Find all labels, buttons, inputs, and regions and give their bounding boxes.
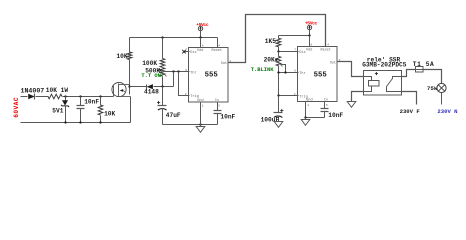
wire thr line <box>164 70 190 72</box>
capacitor C2 47uF <box>157 87 181 125</box>
diode D1 1N4007 <box>21 88 45 100</box>
svg-text:6: 6 <box>185 69 187 72</box>
svg-text:10nF: 10nF <box>84 98 99 105</box>
svg-text:555: 555 <box>205 71 218 79</box>
svg-text:Reset: Reset <box>212 49 223 53</box>
lamp LP1 75W <box>427 83 446 92</box>
wire SSR out to fuse <box>402 70 416 77</box>
svg-text:Thr: Thr <box>190 71 196 76</box>
svg-text:60VAC: 60VAC <box>13 97 20 118</box>
svg-text:1N4007: 1N4007 <box>21 88 45 95</box>
wire source down <box>130 97 132 123</box>
svg-text:230V N: 230V N <box>437 108 457 115</box>
zener D2 5V1 <box>52 97 69 123</box>
svg-text:8: 8 <box>311 44 313 47</box>
svg-text:2: 2 <box>294 93 296 96</box>
wire vcc2 <box>279 34 311 36</box>
svg-text:T.T ON: T.T ON <box>141 73 160 79</box>
svg-text:10nF: 10nF <box>328 112 343 119</box>
svg-text:Vdd: Vdd <box>197 48 203 53</box>
resistor R3 10K (drain pull-up) <box>116 38 131 95</box>
svg-text:8: 8 <box>202 44 204 47</box>
wire out2 to SSR <box>338 62 364 77</box>
svg-text:10nF: 10nF <box>220 114 235 121</box>
wire AC top <box>21 96 28 98</box>
node rail dots <box>161 36 201 38</box>
capacitor C3 10nF (Cv) <box>214 103 236 125</box>
svg-text:555: 555 <box>314 71 327 79</box>
wire SSR to line <box>402 92 417 105</box>
svg-text:4: 4 <box>327 44 329 47</box>
svg-text:Out: Out <box>221 62 227 66</box>
svg-text:G3MB-202PDC5: G3MB-202PDC5 <box>362 62 407 69</box>
svg-text:+5Vcc: +5Vcc <box>196 22 209 28</box>
svg-text:10K 1W: 10K 1W <box>46 87 69 94</box>
wire gnd2 link <box>304 116 324 118</box>
pin numbers U2 <box>294 44 341 107</box>
svg-text:7: 7 <box>294 49 296 52</box>
source label 60VAC (AC input) <box>13 97 20 118</box>
potentiometer P1 500K T.T ON <box>141 67 166 79</box>
power symbol +5Vcc (2) <box>305 21 318 36</box>
capacitor C5 10nF (Cv2) <box>321 102 344 120</box>
wire wiper tie <box>173 72 175 87</box>
pin numbers U1 <box>185 44 231 107</box>
IC U2 555 timer <box>298 47 338 103</box>
svg-text:5V1: 5V1 <box>52 108 63 115</box>
svg-text:5: 5 <box>326 104 328 107</box>
node A dots <box>64 95 101 97</box>
wire trig2 <box>277 94 298 96</box>
resistor R5 1K5 <box>265 36 281 52</box>
resistor R4 100K <box>142 38 165 68</box>
svg-text:230V F: 230V F <box>400 108 421 115</box>
wire gnd pin 1 <box>200 103 202 125</box>
transistor Q1 MOSFET <box>112 82 131 96</box>
resistor R1 10K 1W <box>46 87 69 99</box>
svg-text:4148: 4148 <box>144 88 159 95</box>
svg-text:4: 4 <box>218 44 220 47</box>
svg-text:Vdd: Vdd <box>306 48 312 53</box>
svg-text:Gnd: Gnd <box>197 98 203 103</box>
fuse F1 T1 5A <box>413 61 435 72</box>
svg-text:100K: 100K <box>142 60 157 67</box>
svg-text:5: 5 <box>218 104 220 107</box>
relay K1 SSR body <box>362 56 407 95</box>
wire pot2 bottom <box>278 66 280 96</box>
power symbol +5Vcc (1) <box>196 22 209 38</box>
SSR output switch <box>387 77 402 92</box>
capacitor C1 10nF <box>77 97 100 123</box>
wire AC bottom rail <box>21 121 131 123</box>
svg-text:+5Vcc: +5Vcc <box>305 21 318 27</box>
wire dis2 <box>277 50 298 52</box>
wire pot bottom <box>162 77 164 87</box>
node drain junction <box>128 85 130 87</box>
svg-text:Cv: Cv <box>215 99 219 103</box>
wire <box>36 96 49 98</box>
diode D3 4148 + node wire <box>130 84 174 95</box>
ground (555 #1) <box>196 125 205 133</box>
wire lamp to neutral <box>441 93 443 105</box>
wire Vdd2 stub <box>309 36 311 47</box>
wire gnd2 pin <box>305 102 307 118</box>
wire wiper2 <box>281 65 286 73</box>
svg-text:Out: Out <box>330 62 336 66</box>
ground (SSR) <box>347 102 356 108</box>
IC U1 555 timer <box>189 48 229 103</box>
wire to gate <box>63 96 114 98</box>
svg-text:20K: 20K <box>264 57 275 64</box>
terminal label 230V F <box>400 108 421 115</box>
wire Vdd stub <box>200 38 202 48</box>
terminal label 230V N <box>437 108 457 115</box>
svg-text:2: 2 <box>185 93 187 96</box>
potentiometer P2 20K T.BLINK <box>251 52 283 74</box>
svg-text:10K: 10K <box>116 53 127 60</box>
capacitor C4 100uF <box>261 96 284 124</box>
svg-text:10K: 10K <box>104 111 115 118</box>
resistor R2 10K <box>98 97 115 123</box>
svg-text:Gnd: Gnd <box>306 97 312 102</box>
svg-text:47uF: 47uF <box>166 112 181 119</box>
wire SSR minus to ground <box>352 92 364 102</box>
wire gnd rail 2 <box>163 123 218 125</box>
ground (100uF) <box>274 122 283 128</box>
wire fuse to lamp <box>424 70 442 84</box>
svg-text:Reset: Reset <box>321 49 332 53</box>
wire trig jog <box>179 72 190 96</box>
svg-text:1K5: 1K5 <box>265 38 276 45</box>
wire out1 to reset2 <box>229 15 326 63</box>
svg-text:Thr: Thr <box>299 71 305 76</box>
svg-text:1: 1 <box>307 104 309 107</box>
svg-text:75W: 75W <box>427 85 438 92</box>
svg-text:Dis: Dis <box>190 50 196 55</box>
ground (555 #2) <box>301 118 310 126</box>
wire thr2 <box>277 71 298 73</box>
svg-text:1: 1 <box>202 104 204 107</box>
svg-text:6: 6 <box>294 70 296 73</box>
wire +5V rail <box>130 37 218 39</box>
svg-text:T.BLINK: T.BLINK <box>251 67 274 73</box>
SSR input coil <box>364 77 380 92</box>
pin 7 no-connect X <box>182 50 189 54</box>
svg-text:Dis: Dis <box>299 50 305 55</box>
svg-text:T1 5A: T1 5A <box>413 61 435 68</box>
wire Reset stub <box>217 38 219 48</box>
